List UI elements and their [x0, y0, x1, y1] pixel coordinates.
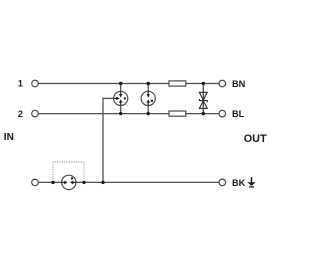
wire GDT F1 bottom stub: [120, 103, 122, 114]
resistor R1: [169, 81, 186, 86]
TVS diode V1 (bidirectional suppressor): [199, 92, 207, 108]
junction row1/GDT F1: [119, 82, 122, 85]
svg-text:OUT: OUT: [244, 133, 267, 145]
svg-text:1: 1: [18, 79, 23, 89]
gas discharge tube F1 (3-electrode, left): [114, 91, 128, 105]
resistor R2: [169, 111, 186, 116]
junction shield/dashed box left: [51, 181, 54, 184]
terminal 1: [32, 80, 39, 87]
svg-text:BL: BL: [232, 109, 245, 119]
junction row2/TVS: [202, 112, 205, 115]
dashed box (indirect shield ground): [53, 162, 84, 182]
terminal BK: [219, 179, 226, 186]
wire vertical ground branch: [103, 98, 117, 182]
junction row1/GDT F2: [147, 82, 150, 85]
earth arrow symbol: [247, 177, 255, 187]
svg-text:BN: BN: [232, 79, 246, 89]
junction shield/dashed box right: [82, 181, 85, 184]
junction shield/ground branch: [101, 181, 104, 184]
gas discharge tube F2 (2-electrode, right): [141, 91, 155, 105]
wire GDT F1 top stub: [120, 84, 122, 95]
junction row2/GDT F1: [119, 112, 122, 115]
wire line 1 (top row): [38, 83, 219, 85]
svg-text:IN: IN: [4, 132, 14, 143]
terminal 2: [32, 110, 39, 117]
terminal BN: [219, 80, 226, 87]
wire line 3 (bottom shield row): [38, 181, 219, 183]
wire TVS branch vertical: [202, 84, 204, 114]
junction dots: [51, 82, 205, 184]
wire GDT F2 bottom stub: [147, 103, 149, 114]
wire line 2 (middle row): [38, 113, 219, 115]
wire GDT F2 top stub: [147, 84, 149, 95]
junction row2/GDT F2: [147, 112, 150, 115]
svg-text:BK: BK: [232, 178, 246, 188]
terminal shield (bottom left): [32, 179, 39, 186]
terminal BL: [219, 110, 226, 117]
gas discharge tube F3 (bottom, in shield line): [62, 175, 76, 189]
junction row1/TVS: [202, 82, 205, 85]
svg-text:2: 2: [18, 109, 23, 119]
